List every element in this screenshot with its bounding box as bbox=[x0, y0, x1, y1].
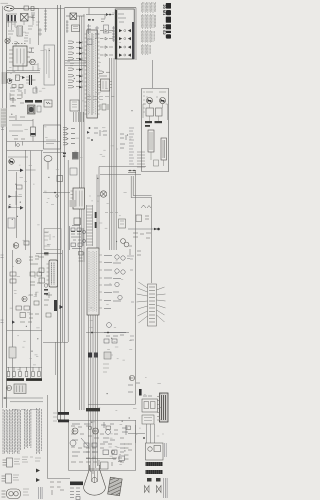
rectifier diodes D2-D5 row bbox=[7, 75, 29, 83]
wire feed row y375.8 bbox=[7, 366, 42, 368]
wire y192 bbox=[43, 192, 70, 198]
mid-left parts y375 hanging resistors bbox=[7, 367, 40, 377]
mains wiring stubs bbox=[8, 19, 33, 44]
amp transistor Q13 bbox=[93, 428, 99, 434]
corner mark top-left bbox=[1, 2, 9, 4]
wire L-path right bbox=[131, 176, 151, 283]
shield block (dark textured) bbox=[72, 152, 79, 160]
transistor outline TO-126 V1 bbox=[3, 458, 21, 467]
ferrite bead row on bus bbox=[86, 408, 100, 411]
MODUL pin transistor clusters bbox=[104, 255, 125, 309]
IC3 power control bbox=[9, 44, 30, 67]
transistor Q6 bbox=[6, 385, 11, 390]
diode D12 (dark) bbox=[20, 206, 24, 210]
power transistor Q11 bbox=[159, 92, 166, 104]
wire vertical divider x30 bbox=[30, 151, 32, 379]
AV switch block S1 (dark frame with contact rows) bbox=[115, 9, 134, 59]
dark id labels y252 bbox=[44, 253, 49, 295]
diode D11 bbox=[9, 206, 12, 209]
resistor boxes y272 bbox=[10, 272, 16, 283]
vertical label strip x38 bottom bbox=[39, 487, 43, 499]
transistor Q5 bbox=[22, 296, 27, 301]
IC5 (8-pin) bbox=[99, 79, 112, 91]
ceramic filter box bbox=[57, 176, 63, 182]
IF can box with output pins bbox=[44, 125, 76, 149]
wire CRT bus lines bbox=[89, 315, 98, 474]
fuse F1 (circle with cross) bbox=[5, 38, 20, 43]
resistor rows right of tube base bbox=[124, 444, 129, 459]
legend arrows bbox=[35, 458, 41, 482]
filter chokes row y141 bbox=[14, 139, 25, 147]
shield square gray bbox=[70, 200, 76, 207]
bridge rectifier BR1 (crossed square) bbox=[66, 13, 85, 20]
snubber resistor rows y85-99 bbox=[10, 85, 23, 99]
pcb id marks x88 y19 bbox=[88, 19, 94, 21]
bias parts y312-325 bbox=[20, 313, 39, 323]
tuning parts x120-129 y133-150 bbox=[120, 134, 126, 148]
wire y332 bbox=[86, 332, 129, 334]
cluster y320-345 mid bbox=[91, 323, 126, 343]
tiny label rows x70 y63 bbox=[70, 64, 74, 66]
filter box y168 bbox=[70, 168, 77, 175]
sound oval L2 bbox=[44, 156, 52, 170]
wire amp box top y404 bbox=[88, 404, 136, 406]
label box mains filter bbox=[17, 26, 23, 36]
AV pin rows left of switch block bbox=[100, 19, 113, 56]
wire x55 drop bbox=[55, 342, 57, 375]
inset interior row labels bbox=[143, 92, 158, 112]
wire x47 drop to y478 bbox=[48, 395, 70, 479]
transistor Q1 bbox=[30, 59, 36, 65]
deflection yoke coil 2 (dark hatched) bbox=[146, 470, 163, 474]
spool symbols bbox=[145, 486, 162, 493]
IC7 vertical deflection (rounded) bbox=[47, 260, 58, 287]
inset internal wiring bbox=[143, 104, 168, 167]
box filter bbox=[8, 218, 15, 228]
dark chokes x58-70 bbox=[53, 412, 69, 422]
parts list text block C (rotated text columns) bbox=[37, 408, 42, 454]
wire horizontal bus y141 bbox=[7, 141, 60, 143]
degaussing coil L1 (oval) bbox=[4, 6, 14, 12]
parts left of IC7 bbox=[38, 253, 49, 288]
transistor Q2 bbox=[9, 159, 15, 165]
wire right panel top border bbox=[65, 7, 136, 9]
AGC parts row y125-145 bbox=[87, 127, 107, 141]
wire corner drop x99 bbox=[97, 167, 99, 251]
TO-3 labels bbox=[23, 489, 29, 495]
line filter labels bbox=[25, 22, 40, 36]
wires under boxes bbox=[128, 424, 155, 443]
faint parts y362-375 bbox=[103, 364, 109, 372]
transistors Q7 Q8 bbox=[121, 239, 129, 247]
wire left margin rule bbox=[2, 6, 4, 408]
discriminator box bbox=[74, 218, 81, 225]
video out box near CRT bbox=[86, 458, 122, 469]
tuning capacitor cluster bbox=[128, 383, 152, 396]
paper background bbox=[0, 0, 171, 500]
amp parts cluster bbox=[70, 422, 128, 461]
amp box interior extra parts bbox=[71, 426, 132, 462]
transistor Q3 bbox=[13, 241, 29, 248]
zener pair cluster y205-240 bbox=[127, 205, 160, 259]
resistor network R5-R8 bbox=[10, 86, 37, 94]
wire comb top mid bbox=[74, 112, 84, 122]
label rows left of inset x128-140 bbox=[128, 128, 136, 173]
secondary diodes D6-D8 bbox=[9, 97, 25, 120]
driver transformer T3 bbox=[14, 384, 26, 394]
dense sync cluster bbox=[70, 226, 86, 251]
parts list text block B (rotated text columns) bbox=[25, 409, 31, 449]
connector X2 comb left edge bbox=[2, 73, 7, 84]
horizontal wires y60-65 bbox=[65, 61, 86, 66]
parts under dark bar bbox=[70, 488, 80, 492]
wire right panel right border bbox=[135, 8, 137, 404]
wire y342 border bbox=[43, 342, 68, 344]
amp transistor Q12 bbox=[72, 428, 78, 434]
small parts x86-105 y25-45 bbox=[87, 24, 116, 45]
wire right panel left border bbox=[64, 8, 66, 421]
CRT V10 (flask) bbox=[84, 465, 106, 495]
IC6 sound demod bbox=[71, 188, 85, 209]
tuner diodes row y70 bbox=[99, 71, 110, 76]
wire col1 verticals y150-250 bbox=[17, 150, 26, 250]
HV divider box bbox=[142, 399, 158, 412]
driver box 1 bbox=[146, 108, 154, 116]
inset panel frame bottom-right of top section bbox=[142, 89, 169, 172]
small wires cluster y155-250 bbox=[8, 157, 36, 208]
keyboard diode arrowheads (dark) bbox=[79, 41, 82, 88]
parts list text block A (rotated text columns) bbox=[3, 409, 21, 454]
chopper transformer T2 (dark bars) bbox=[25, 100, 42, 114]
dark capacitor C6 bbox=[54, 300, 57, 311]
right margin ticks bbox=[130, 256, 134, 340]
diode D10 bbox=[9, 195, 12, 198]
ground bus bar (thick dark) bbox=[7, 378, 43, 381]
small box x118-126 bbox=[119, 219, 126, 228]
transistor Q14 bbox=[129, 375, 134, 380]
opto coupler IC4 bbox=[44, 100, 52, 107]
resistor column x66 bbox=[66, 20, 69, 33]
wire y253 top of IC2 area bbox=[36, 253, 62, 255]
edge connector X4 bbox=[148, 284, 157, 326]
tube base hatched block bbox=[108, 477, 123, 496]
margin tick C bbox=[1, 320, 4, 323]
transistor outline TO-126 V2 bbox=[2, 474, 20, 483]
regulator box VR1 (vertical, text) bbox=[148, 130, 154, 152]
vertical stub wires y63-70 bbox=[10, 63, 38, 100]
margin tick B bbox=[1, 255, 4, 258]
mains transformer T1 (crossed box) bbox=[21, 14, 34, 22]
heading row above parts list bbox=[12, 409, 38, 411]
speaker feed parts x50-64 y480-495 bbox=[50, 482, 64, 495]
capacitor block C5 bbox=[9, 347, 16, 358]
standby transformer label box bbox=[44, 45, 55, 85]
linearity box bbox=[142, 415, 154, 424]
amp diode rows x86-106 bbox=[86, 448, 99, 466]
dark connector marks y352 bbox=[88, 352, 111, 359]
margin tick AA bbox=[1, 127, 4, 130]
diode D1 cluster bbox=[7, 48, 40, 73]
parts under speaker bar bbox=[70, 495, 80, 500]
wire top-left feed bbox=[14, 9, 64, 46]
yoke vertical text bbox=[165, 443, 167, 457]
tuner sub box x44-61 y228-250 bbox=[44, 229, 61, 250]
remote receiver box bbox=[70, 100, 79, 111]
wires y402 y406 bbox=[3, 397, 43, 402]
brand logotype (clipped at right edge) bbox=[166, 3, 171, 39]
IC1 video processor (tall) bbox=[85, 30, 100, 118]
wires y115-140 left bbox=[9, 28, 42, 136]
sync separator parts x78-86 y251-263 bbox=[79, 252, 85, 263]
component value labels (scattered) bbox=[9, 13, 164, 465]
resistor boxes y306 bbox=[16, 306, 30, 310]
yoke terminals bbox=[147, 478, 161, 482]
heat sink hatched strip bbox=[1, 108, 7, 127]
parts under IC7 bbox=[44, 292, 52, 317]
label row y96 bbox=[87, 97, 114, 100]
fan wires left bbox=[137, 282, 148, 323]
diode D13 bbox=[12, 321, 15, 324]
part number strip (vertical text) bbox=[164, 478, 168, 498]
inset output pins bbox=[137, 152, 159, 167]
crystal X3 bbox=[100, 104, 108, 110]
transistor Q4 bbox=[16, 258, 21, 263]
labels row y212 bbox=[105, 212, 118, 214]
resistor stack R2-R4 bbox=[31, 13, 35, 18]
solder junction dots (scattered) bbox=[9, 38, 160, 452]
notes text block top-right (two tiny columns) bbox=[141, 2, 155, 55]
electrolytic C2 bbox=[31, 119, 36, 141]
fan wires right bbox=[157, 287, 166, 322]
wire left panel divider y150 bbox=[7, 151, 64, 153]
crossed mixer node bbox=[100, 191, 106, 197]
cluster x28-42 y255-315 bbox=[29, 256, 42, 305]
svg-text:21 S2: 21 S2 bbox=[162, 25, 167, 36]
dark mark capacitor C7 bbox=[139, 389, 142, 396]
wire mid vertical bus group B bbox=[110, 58, 117, 250]
regulator package TO-3 bbox=[2, 489, 21, 499]
deflection yoke coil 1 (dark hatched) bbox=[146, 462, 163, 466]
dark segments x95 bbox=[95, 212, 97, 228]
keyboard diodes column (8 rows) bbox=[68, 41, 82, 88]
regulator box VR2 (vertical, text) bbox=[161, 138, 167, 160]
mains connector X1 (three dark pins) bbox=[7, 14, 18, 22]
posistor R1 bbox=[14, 6, 39, 11]
wire col1 bus x12 bbox=[12, 250, 14, 378]
wire mid vertical bus group A bbox=[80, 14, 84, 410]
relay K1 bbox=[72, 25, 80, 32]
svg-text:20 M1: 20 M1 bbox=[162, 5, 167, 17]
wire horizontal pair y166/y174 bbox=[99, 167, 146, 175]
wire inset feed bbox=[152, 60, 154, 88]
mid labels y455-466 bbox=[22, 457, 33, 462]
wire amp box frame bbox=[69, 420, 136, 471]
smoothing capacitor C1 bbox=[26, 75, 36, 85]
connector ladder x86-93 bbox=[87, 205, 93, 246]
flyback transformer T4 (dark) bbox=[157, 393, 168, 422]
wire verticals x62 x68 mid bbox=[63, 160, 69, 342]
input wire row y14 with junction bbox=[86, 8, 114, 19]
yoke connection box bbox=[146, 443, 164, 460]
speaker capacitor dark bar bbox=[70, 482, 83, 486]
wire left panel right border (double) bbox=[58, 5, 61, 420]
resistor column x44 bbox=[44, 8, 47, 32]
faint parts x43-55 y230-250 bbox=[44, 232, 50, 246]
wire vertical divider x41 bbox=[41, 151, 43, 379]
resistor R10 bbox=[17, 185, 23, 189]
diode D14 (dark) bbox=[60, 305, 64, 309]
wire y330 bbox=[7, 330, 42, 332]
power transistor Q10 bbox=[146, 92, 153, 104]
wire left panel border bbox=[6, 14, 8, 408]
diode D9 (dark) bbox=[20, 169, 24, 173]
driver box 2 bbox=[156, 108, 163, 116]
wire branch y229 bbox=[128, 228, 157, 230]
junction cluster x63 y152 bbox=[63, 153, 66, 157]
part number labels (dark) bbox=[145, 121, 162, 127]
IC2 audio processor MODUL box bbox=[87, 248, 102, 315]
